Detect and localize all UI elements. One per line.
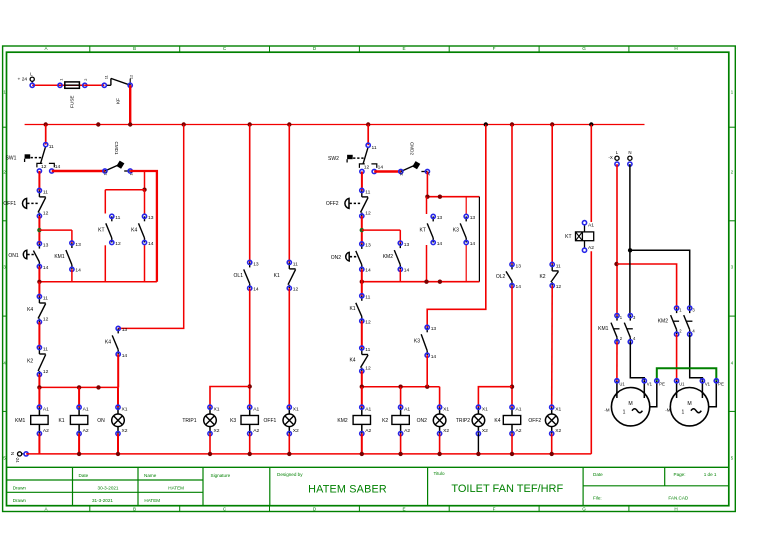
svg-text:Name: Name — [144, 473, 157, 478]
node terminal +24 — [30, 83, 34, 87]
pushbutton OFF2 — [326, 188, 371, 218]
svg-text:11: 11 — [104, 75, 109, 79]
relay contact K1 NC column — [288, 125, 290, 263]
wire K2 NC to OFF2 lamp — [551, 286, 554, 408]
wire K2 NC to coil line — [38, 374, 40, 387]
indicator lamp ON — [97, 405, 128, 436]
wire box right edge black — [478, 197, 480, 282]
svg-text:H: H — [674, 46, 677, 51]
wire ON2 to latch line — [361, 269, 363, 281]
svg-text:A1: A1 — [253, 407, 259, 413]
svg-text:13: 13 — [148, 215, 154, 221]
wire KM2 to motor2 U1 — [676, 334, 678, 381]
svg-text:File:: File: — [593, 496, 602, 501]
border column letters bottom — [44, 506, 677, 511]
wire KT column lower — [104, 245, 106, 281]
svg-text:11: 11 — [49, 144, 54, 150]
border row ticks right — [729, 127, 736, 411]
junction dots box bottom — [360, 280, 364, 284]
relay contact K4 NO mid — [105, 326, 128, 359]
overload contact OL1 — [234, 260, 259, 292]
svg-text:-24: -24 — [15, 457, 20, 464]
wire OFF2 lamp to rail — [551, 434, 553, 454]
svg-text:X1: X1 — [482, 407, 488, 413]
wire junction to KT branch — [105, 189, 144, 191]
wire to K1 NO — [361, 282, 363, 296]
indicator lamp ON2 — [417, 387, 450, 436]
wire K1 NC to OFF1 lamp — [288, 288, 290, 407]
wire K3 coil to rail — [249, 434, 251, 454]
svg-text:V1: V1 — [705, 381, 711, 386]
svg-text:Date: Date — [79, 473, 89, 478]
junction dot TRIP1 branch — [248, 384, 252, 388]
svg-text:A1: A1 — [404, 407, 410, 413]
wire branch down to K4 box — [144, 171, 146, 190]
pushbutton ON2 — [331, 242, 371, 274]
junction dot latch branch right — [360, 228, 364, 232]
svg-text:A1: A1 — [516, 407, 522, 413]
svg-text:A2: A2 — [253, 428, 259, 434]
indicator lamp OFF2 — [528, 405, 561, 436]
relay contact K2 NC — [27, 345, 49, 376]
svg-text:HATEM: HATEM — [144, 498, 160, 503]
wire KM1 aux to latch line — [71, 269, 73, 282]
svg-text:X2: X2 — [555, 428, 561, 434]
svg-text:B: B — [133, 506, 136, 511]
wire coil feed line right — [362, 386, 440, 388]
wire KT column right upper — [426, 197, 428, 214]
svg-text:CMD2: CMD2 — [410, 142, 415, 155]
pushbutton ON1 — [8, 242, 48, 271]
svg-text:Signature: Signature — [211, 473, 231, 478]
wire bus jog to K3 NO — [427, 125, 486, 328]
svg-text:U1: U1 — [679, 381, 685, 386]
switch CMD1 — [103, 142, 134, 176]
svg-text:Titulo: Titulo — [434, 471, 446, 476]
svg-text:11: 11 — [43, 189, 48, 195]
wire top bus +24V rail — [25, 124, 645, 126]
svg-text:K2: K2 — [382, 418, 388, 424]
svg-text:13: 13 — [470, 215, 476, 221]
wire +24 to fuse — [32, 84, 60, 86]
svg-text:13: 13 — [43, 242, 49, 248]
svg-text:K2: K2 — [539, 274, 545, 280]
svg-text:13: 13 — [122, 327, 128, 333]
border column letters top — [44, 46, 677, 51]
svg-text:14: 14 — [516, 284, 522, 290]
svg-text:PE: PE — [718, 381, 724, 386]
relay coil K2 — [382, 387, 410, 436]
svg-text:12: 12 — [41, 164, 47, 170]
overload contact OL2 column — [511, 125, 513, 265]
svg-text:11: 11 — [115, 215, 120, 221]
contactor coil KM1 — [15, 387, 49, 435]
junction dot K4 branch — [142, 188, 146, 192]
svg-text:13: 13 — [516, 263, 522, 269]
svg-text:E: E — [402, 46, 405, 51]
svg-text:14: 14 — [470, 241, 476, 247]
svg-text:X2: X2 — [482, 428, 488, 434]
terminal N — [628, 150, 632, 166]
junction dot latch line — [37, 280, 41, 284]
svg-text:11: 11 — [556, 263, 561, 269]
contactor main contacts KM2 — [658, 306, 696, 336]
svg-text:K2: K2 — [27, 358, 33, 364]
svg-text:A2: A2 — [365, 428, 371, 434]
wire OFF2 to ON2 — [361, 216, 363, 244]
wire latch branch to KM1 aux — [39, 229, 72, 231]
svg-text:X1: X1 — [443, 407, 449, 413]
svg-text:14: 14 — [431, 354, 437, 360]
contactor aux contact KM1 — [54, 241, 81, 274]
relay coil K3 — [230, 405, 259, 436]
wire K4 coil to rail — [511, 434, 513, 454]
relay contact K4 in box — [131, 214, 154, 247]
svg-text:Date: Date — [593, 472, 603, 477]
wire KM1 to motor1 V1 — [630, 342, 644, 381]
wire K4 NC to coil line right — [361, 371, 363, 387]
wire fuse to KF — [85, 84, 105, 86]
svg-text:14: 14 — [122, 353, 128, 359]
svg-text:14: 14 — [253, 287, 259, 293]
svg-text:12: 12 — [43, 369, 49, 375]
svg-text:A2: A2 — [83, 428, 89, 434]
svg-text:K4: K4 — [494, 418, 500, 424]
wire coil feed line left — [39, 386, 118, 388]
svg-text:11: 11 — [365, 189, 370, 195]
svg-text:G: G — [582, 506, 586, 511]
svg-text:K3: K3 — [453, 227, 459, 233]
svg-text:12: 12 — [365, 366, 371, 372]
svg-text:K4: K4 — [131, 227, 137, 233]
svg-text:OFF2: OFF2 — [326, 201, 339, 207]
wire OFF1 lamp to rail — [288, 434, 290, 454]
svg-text:K3: K3 — [414, 339, 420, 345]
svg-text:K1: K1 — [58, 418, 64, 424]
svg-text:F: F — [493, 506, 496, 511]
border column ticks bottom — [90, 506, 629, 512]
wire KM1 to motor1 U1 — [616, 342, 618, 381]
junction dot latch branch left — [37, 228, 41, 232]
svg-text:12: 12 — [364, 165, 370, 171]
svg-text:F: F — [493, 46, 496, 51]
svg-text:Page:: Page: — [674, 472, 686, 477]
svg-text:KM1: KM1 — [15, 418, 26, 424]
svg-text:11: 11 — [293, 261, 298, 267]
svg-text:1: 1 — [58, 79, 63, 81]
svg-text:-X: -X — [608, 155, 612, 160]
svg-text:N: N — [628, 150, 631, 155]
wire CMD2 down to box top — [426, 172, 428, 197]
junction dot L branch — [614, 262, 618, 266]
svg-text:12: 12 — [129, 75, 134, 79]
svg-text:-M: -M — [604, 407, 609, 412]
svg-text:E: E — [402, 506, 405, 511]
svg-text:14: 14 — [437, 241, 443, 247]
svg-text:2: 2 — [83, 79, 88, 81]
svg-text:11: 11 — [43, 347, 48, 353]
svg-text:14: 14 — [148, 241, 154, 247]
wire KT coil column lower — [590, 251, 592, 454]
svg-text:ON2: ON2 — [417, 418, 428, 424]
svg-text:OFF1: OFF1 — [264, 418, 277, 424]
svg-text:G: G — [582, 46, 586, 51]
svg-text:14: 14 — [55, 164, 61, 170]
svg-text:ON: ON — [97, 418, 105, 424]
motor M2 — [665, 379, 724, 426]
svg-text:KM2: KM2 — [383, 254, 394, 260]
title block header labels — [79, 471, 717, 501]
svg-text:A2: A2 — [516, 428, 522, 434]
svg-text:M: M — [628, 401, 632, 407]
junction dot TRIP2 branch — [510, 385, 514, 389]
svg-text:12: 12 — [103, 171, 108, 175]
svg-text:A1: A1 — [588, 223, 594, 229]
fuse FUSE — [58, 79, 88, 108]
svg-text:A2: A2 — [588, 245, 594, 251]
svg-text:1: 1 — [682, 409, 685, 415]
wire K2 coil to rail — [400, 434, 402, 454]
junction dots coil feed left — [37, 385, 41, 389]
svg-text:13: 13 — [253, 261, 259, 267]
pushbutton OFF1 — [3, 188, 48, 218]
relay contact K1 NC — [274, 260, 299, 292]
svg-text:K4: K4 — [105, 340, 111, 346]
wire SW1-14 to CMD1 — [52, 170, 105, 172]
relay contact K1 NO — [349, 294, 371, 326]
svg-text:OFF2: OFF2 — [528, 418, 541, 424]
svg-text:K1: K1 — [349, 306, 355, 312]
wire to K4 NC — [38, 282, 40, 297]
svg-text:13: 13 — [404, 242, 410, 248]
svg-text:FUSE: FUSE — [70, 95, 75, 108]
svg-text:SW2: SW2 — [328, 156, 339, 162]
svg-text:+ 24: + 24 — [18, 77, 28, 83]
wire latch line left — [39, 281, 156, 283]
svg-text:A2: A2 — [404, 428, 410, 434]
contactor coil KM2 — [337, 387, 371, 436]
wire L branch to KM2 — [617, 264, 677, 308]
svg-text:TRIP1: TRIP1 — [182, 418, 196, 424]
wire N down — [629, 164, 631, 316]
wire ON1 to latch line — [38, 267, 40, 282]
svg-text:14: 14 — [43, 265, 49, 271]
svg-text:A1: A1 — [365, 407, 371, 413]
wire KM2 aux to latch line — [399, 269, 401, 281]
wire KT column right lower — [426, 245, 428, 282]
switch contact KF — [102, 75, 133, 104]
svg-text:12: 12 — [398, 172, 403, 176]
junction dot N branch — [628, 248, 632, 252]
node terminal -24 — [24, 452, 28, 456]
svg-text:-M: -M — [665, 407, 670, 412]
svg-text:X1: X1 — [122, 407, 128, 413]
switch CMD2 — [398, 142, 430, 176]
svg-text:U1: U1 — [619, 381, 625, 386]
timer contact KT left — [98, 214, 121, 247]
contactor main contacts KM1 — [598, 314, 636, 344]
relay contact K3 in box — [453, 214, 476, 247]
svg-text:KM1: KM1 — [598, 326, 609, 332]
svg-text:12: 12 — [115, 241, 121, 247]
svg-text:14: 14 — [365, 268, 371, 274]
svg-text:X1: X1 — [555, 407, 561, 413]
svg-text:Drawn: Drawn — [13, 498, 27, 503]
wire K3 NO to coil line — [426, 355, 428, 387]
wire bottom rail -24V — [26, 453, 591, 455]
svg-text:1: 1 — [623, 409, 626, 415]
relay contact K4 NC right — [349, 346, 371, 373]
svg-text:13: 13 — [75, 242, 81, 248]
svg-text:30-3-2021: 30-3-2021 — [98, 486, 119, 491]
wire SW2-14 to CMD2 — [374, 170, 401, 172]
border column ticks top — [90, 46, 629, 52]
terminal +24 L — [18, 71, 35, 83]
svg-text:OFF1: OFF1 — [3, 201, 16, 207]
wire ON lamp to rail — [117, 434, 119, 454]
indicator lamp TRIP1 — [182, 405, 219, 436]
svg-text:KT: KT — [565, 234, 571, 240]
wire SW1-12 down to OFF1 — [38, 171, 40, 190]
wire box top line right — [427, 196, 480, 198]
border row numbers right — [731, 90, 734, 461]
svg-text:KM2: KM2 — [658, 318, 669, 324]
wire K4 NO to ON lamp — [117, 354, 119, 387]
svg-text:X2: X2 — [293, 428, 299, 434]
svg-text:13: 13 — [365, 243, 371, 249]
svg-text:KT: KT — [420, 227, 426, 233]
svg-text:M: M — [687, 401, 691, 407]
border inner frame — [7, 52, 729, 506]
svg-text:X2: X2 — [214, 428, 220, 434]
junction dots coil feed right — [360, 385, 364, 389]
svg-text:HATEM: HATEM — [168, 486, 184, 491]
svg-text:OL1: OL1 — [234, 273, 244, 279]
title block rows Drawn dates — [13, 486, 184, 503]
wire K1 coil to rail — [78, 434, 80, 454]
svg-text:11: 11 — [365, 295, 370, 301]
wire TRIP2 to rail — [477, 434, 479, 454]
svg-text:12: 12 — [365, 210, 371, 216]
relay contact K2 NC right — [539, 262, 561, 290]
svg-text:KM1: KM1 — [54, 254, 65, 260]
svg-text:CMD1: CMD1 — [114, 142, 119, 155]
wire KF down to bus — [129, 85, 131, 124]
wire OL1 to K3 coil — [249, 288, 251, 407]
border row ticks left — [3, 127, 7, 411]
svg-text:H: H — [674, 506, 677, 511]
svg-text:A1: A1 — [43, 407, 49, 413]
wire bus down right of left half — [118, 125, 184, 329]
svg-text:HATEM SABER: HATEM SABER — [308, 484, 387, 496]
svg-text:KM2: KM2 — [337, 418, 348, 424]
wire K3 column right — [465, 197, 467, 214]
svg-text:V1: V1 — [647, 381, 653, 386]
svg-text:A2: A2 — [43, 428, 49, 434]
svg-text:13: 13 — [437, 215, 443, 221]
timer coil KT — [565, 221, 594, 253]
wire OL2 to K4 coil — [511, 286, 513, 408]
svg-text:11: 11 — [372, 145, 377, 151]
svg-text:KF: KF — [116, 98, 121, 104]
relay coil K1 — [58, 387, 88, 435]
svg-text:14: 14 — [404, 268, 410, 274]
svg-text:13: 13 — [431, 326, 437, 332]
svg-text:K3: K3 — [230, 418, 236, 424]
wire TRIP1 to rail — [209, 434, 211, 454]
svg-text:1 de 1: 1 de 1 — [704, 472, 717, 477]
wire KT coil column upper — [590, 125, 592, 223]
svg-text:11: 11 — [365, 347, 370, 353]
wire latch branch to KM2 aux — [362, 229, 401, 231]
svg-text:14: 14 — [378, 165, 384, 171]
svg-text:K4: K4 — [349, 358, 355, 364]
wire K1 NO to K4 NC — [361, 321, 363, 348]
wire ON2 lamp to rail — [439, 434, 441, 454]
indicator lamp TRIP2 — [456, 405, 488, 436]
svg-text:X2: X2 — [122, 428, 128, 434]
terminal -X L — [608, 150, 619, 166]
wire box bottom line — [362, 281, 480, 283]
svg-text:12: 12 — [43, 316, 49, 322]
svg-text:K1: K1 — [274, 273, 280, 279]
relay contact K4 NC — [27, 294, 49, 324]
overload contact OL1 column — [249, 125, 251, 263]
svg-text:PE: PE — [659, 381, 665, 386]
svg-text:OL2: OL2 — [496, 274, 506, 280]
svg-text:14: 14 — [75, 268, 81, 274]
wire TRIP1 branch — [210, 387, 250, 408]
timer contact KT right — [420, 214, 443, 247]
wire KM2 coil to rail — [361, 434, 363, 454]
junction dots box top — [425, 195, 429, 199]
svg-text:11: 11 — [43, 296, 48, 302]
svg-text:TRIP2: TRIP2 — [456, 418, 470, 424]
overload contact OL2 — [496, 262, 521, 290]
motor M1 — [604, 379, 665, 426]
title block grid — [7, 467, 729, 505]
terminal -24 N — [10, 452, 24, 463]
svg-text:TOILET FAN TEF/HRF: TOILET FAN TEF/HRF — [451, 483, 563, 495]
svg-text:FAN.CAD: FAN.CAD — [668, 496, 689, 501]
wire SW2-12 down to OFF2 — [361, 172, 363, 191]
svg-text:KT: KT — [98, 227, 104, 233]
svg-text:ON1: ON1 — [8, 253, 19, 259]
relay contact K3 NO mid — [414, 325, 437, 360]
svg-text:B: B — [133, 46, 136, 51]
svg-text:12: 12 — [365, 319, 371, 325]
wire L phase down — [616, 164, 618, 316]
wire PE green link — [657, 368, 717, 381]
wire KT column upper — [104, 190, 106, 214]
indicator lamp OFF1 — [264, 405, 300, 436]
wire bus to SW1 — [45, 125, 47, 145]
wire KM1 coil to rail — [38, 434, 40, 454]
wire TRIP2 branch — [478, 387, 512, 408]
contactor aux contact KM2 — [383, 241, 410, 274]
svg-text:ON2: ON2 — [331, 255, 342, 261]
relay coil K4 — [494, 405, 521, 436]
svg-text:X1: X1 — [293, 407, 299, 413]
svg-text:SW1: SW1 — [6, 155, 17, 161]
relay contact K2 NC column right — [551, 125, 553, 265]
svg-text:12: 12 — [43, 210, 49, 216]
svg-text:Drawn: Drawn — [13, 486, 27, 491]
junction dots bottom rail — [77, 452, 554, 456]
wire KM2 to motor2 V1 — [690, 334, 703, 381]
svg-text:31-3-2021: 31-3-2021 — [92, 498, 113, 503]
wire OFF1 to ON1 — [38, 216, 40, 244]
